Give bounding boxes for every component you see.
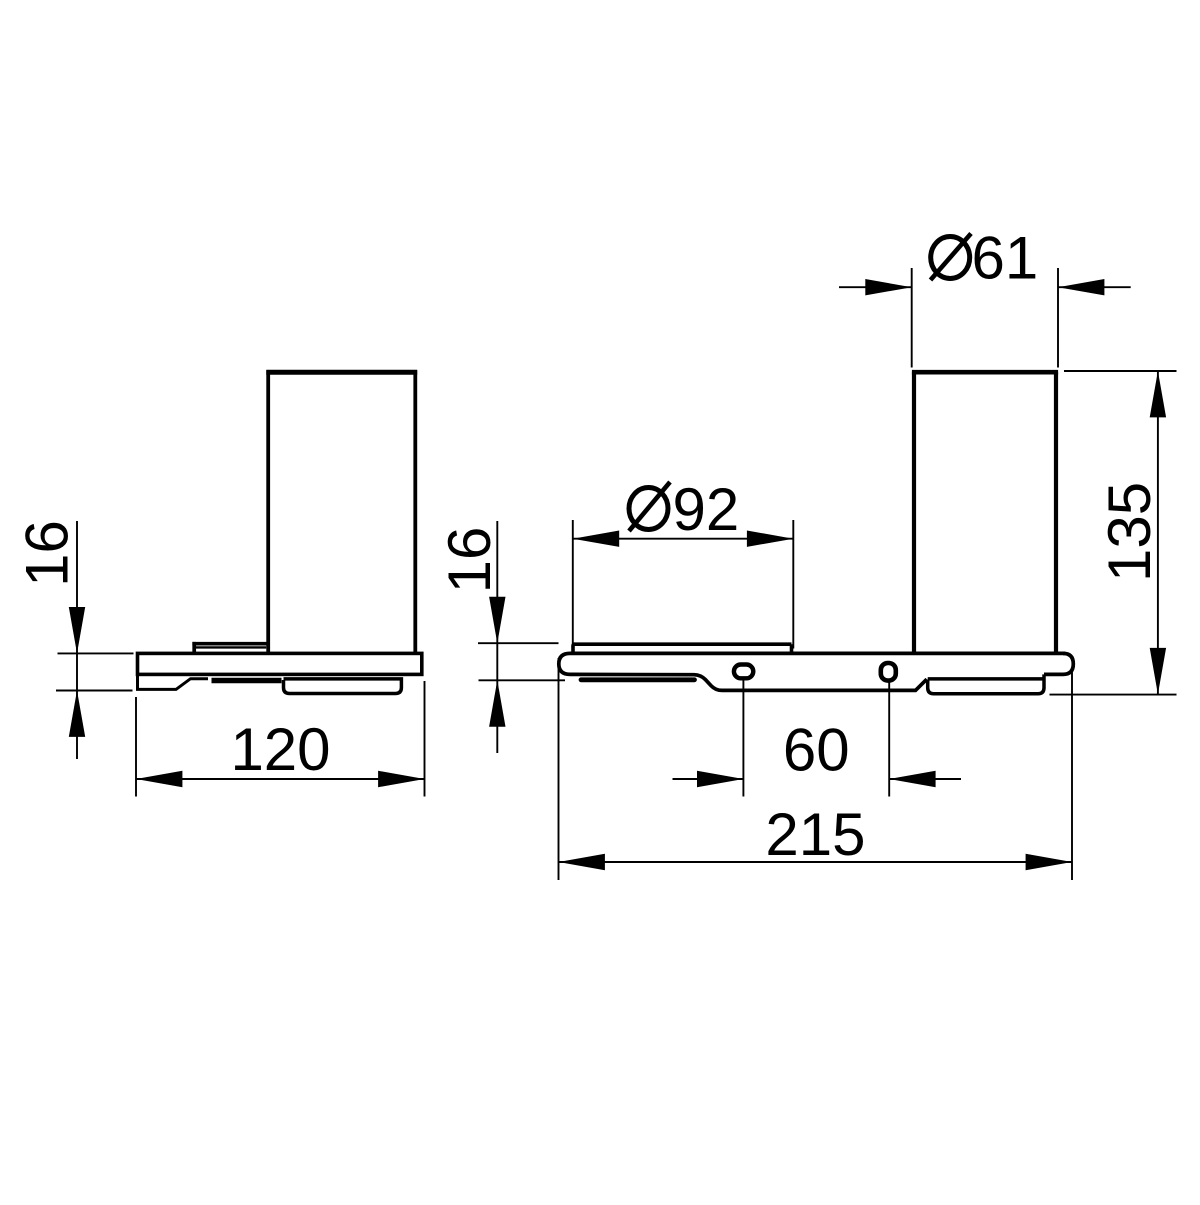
mounting bracket (side view) <box>284 679 402 694</box>
dim 16 middle arrows <box>489 597 505 643</box>
shelf (side view) <box>138 653 422 674</box>
dim 16 middle: extension lines <box>478 642 559 644</box>
dim 215: extension lines <box>558 658 560 880</box>
svg-text:61: 61 <box>972 225 1039 292</box>
dim 16 left arrows <box>69 607 85 653</box>
dim 60: extension lines <box>742 681 744 797</box>
dim 135 arrows <box>1150 371 1166 417</box>
dim 120: extension lines <box>135 697 137 797</box>
dim 16 left: dimension line <box>76 521 78 759</box>
dim 60 arrows (outside) <box>697 771 743 787</box>
cylinder left edge <box>912 372 916 653</box>
dish lip tab left edge <box>192 642 196 654</box>
ARROWHEADS <box>69 279 1166 870</box>
screw slot hole 1 <box>734 665 753 679</box>
svg-text:92: 92 <box>673 476 740 543</box>
tumbler body (side view) <box>268 372 415 653</box>
svg-text:120: 120 <box>230 716 330 783</box>
diameter symbol of Ø92 <box>629 482 670 531</box>
dim 135: dimension line <box>1157 371 1159 694</box>
dim 60: dimension line with outside tails <box>673 778 744 780</box>
dish lip inner line <box>196 646 266 648</box>
svg-text:215: 215 <box>765 801 865 868</box>
dim Ø92 arrows <box>573 531 619 547</box>
dim 135: extension lines <box>1064 370 1177 372</box>
dim 16 left: extension lines <box>58 652 134 654</box>
svg-text:60: 60 <box>783 717 850 784</box>
shelf right end (front view) <box>1044 653 1073 674</box>
svg-text:16: 16 <box>436 527 503 594</box>
svg-text:135: 135 <box>1096 482 1163 582</box>
cylinder top edge <box>912 370 1058 375</box>
dim Ø92: extension lines <box>572 520 574 648</box>
dish ring band (front view) <box>581 677 695 682</box>
svg-text:16: 16 <box>13 520 80 587</box>
dim 215: dimension line <box>559 861 1073 863</box>
screw hole 2 <box>881 663 896 681</box>
DIMENSIONS (thin lines) <box>56 268 1177 880</box>
dim 16 middle: dimension line <box>496 521 498 753</box>
cylinder right edge <box>1054 372 1058 653</box>
dim 215 arrows <box>559 854 605 870</box>
mounting bracket (front view) <box>928 674 1044 693</box>
dim Ø61 arrows (outside) <box>865 279 911 295</box>
dish lip tab top <box>192 642 268 646</box>
diameter symbol of Ø61 <box>931 234 972 281</box>
shelf (front view): top edge, rounded left cap, partial bottom edge merging into plate bottom <box>559 653 1066 690</box>
dim Ø92: dimension line <box>573 538 794 540</box>
bracket top edge (front view) <box>928 677 1044 681</box>
DIMENSION TEXTS <box>13 225 1163 869</box>
dim 120: dimension line <box>136 778 425 780</box>
dim Ø61: extension lines <box>911 268 913 368</box>
dish flange right edge <box>790 644 794 653</box>
dish flange left edge <box>573 644 575 653</box>
wall plate (side view) <box>138 674 209 689</box>
dim Ø61: dimension line with outside tails <box>839 286 912 288</box>
dim 120 arrows <box>136 771 182 787</box>
tumbler top edge (thick) <box>266 370 417 375</box>
dish flange top <box>573 642 792 646</box>
dish ring band (side view) <box>212 678 282 683</box>
